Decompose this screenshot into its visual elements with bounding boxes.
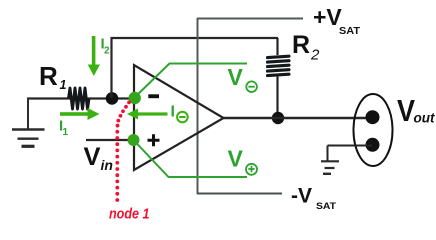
wire: Vout lower return wire — [328, 145, 373, 147]
resistor R2 (coil) — [268, 56, 290, 75]
wire: -Vsat rail — [197, 193, 282, 195]
svg-text:SAT: SAT — [339, 26, 360, 37]
wire: V-plus sense line (green) — [134, 140, 248, 177]
wire: supply vertical line — [197, 18, 199, 194]
resistor R1 (coil) — [69, 88, 90, 109]
wire: +Vsat rail — [197, 18, 303, 20]
wire: main input wire — [27, 97, 134, 99]
node 1 red dotted highlight line — [115, 101, 130, 202]
wire: feedback vertical branch — [110, 38, 112, 98]
svg-text:in: in — [101, 157, 113, 173]
wire: Vout ground stem — [327, 146, 329, 162]
arrow I2 (green down arrow) — [88, 36, 100, 76]
ground (left input ground) — [12, 130, 45, 147]
svg-text:V: V — [228, 146, 244, 172]
node: output junction dot — [272, 112, 284, 124]
svg-text:R: R — [292, 31, 310, 59]
svg-text:-V: -V — [291, 185, 312, 208]
arrow I1 (green right arrow) — [60, 108, 100, 120]
ground (output ground) — [321, 161, 339, 174]
op-amp U1 (triangle) — [134, 65, 224, 170]
wire: R2 top stem — [276, 38, 278, 55]
svg-text:I: I — [171, 104, 175, 121]
svg-text:2: 2 — [104, 46, 110, 57]
svg-text:node 1: node 1 — [109, 205, 150, 222]
wire: Vin input wire — [86, 139, 134, 141]
wire: feedback top horizontal — [111, 37, 279, 39]
op-amp minus sign — [148, 94, 159, 98]
wire: left ground stem — [27, 99, 29, 130]
Vout probe ellipse — [354, 94, 393, 166]
svg-text:SAT: SAT — [316, 201, 336, 212]
svg-text:1: 1 — [63, 127, 69, 138]
svg-text:V: V — [228, 64, 244, 90]
node: Vout lower terminal dot — [366, 138, 380, 152]
wire: R2 bottom stem — [276, 76, 278, 117]
node: inverting input dot (green) — [129, 92, 141, 104]
node: Vout upper terminal dot — [366, 110, 380, 124]
svg-text:1: 1 — [60, 78, 67, 92]
wire: V-minus sense line (green) — [134, 64, 247, 99]
node: non-inverting input dot (green) — [128, 134, 140, 146]
node A (node 1 junction dot) — [106, 92, 119, 105]
svg-text:V: V — [84, 143, 101, 171]
svg-text:2: 2 — [310, 47, 320, 64]
arrow I-minus (green left arrow into inverting input) — [127, 109, 168, 120]
svg-text:R: R — [39, 61, 58, 91]
op-amp plus sign — [148, 134, 160, 146]
wire: output wire — [224, 117, 373, 119]
svg-text:out: out — [414, 110, 436, 126]
